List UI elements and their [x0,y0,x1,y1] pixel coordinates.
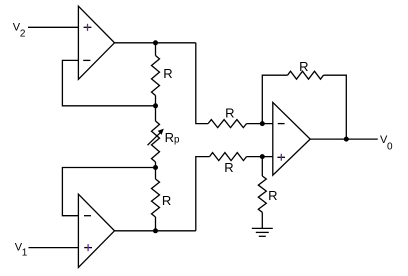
svg-text:1: 1 [22,247,28,258]
wire U3 feedback up from inverting node [262,75,287,123]
svg-text:2: 2 [20,29,26,40]
ground symbol [252,228,273,236]
op-amp U1 (top) [78,6,114,79]
svg-text:R: R [225,106,234,121]
U3 - input marker [278,123,285,125]
wire stub: U1 output down to U3 inverting row [196,43,208,124]
junction node U1 output [153,40,158,45]
resistor R (bottom, between node row 3 and U2 output node) [152,168,160,231]
potentiometer RP between node rows 2 and 3 [148,106,164,168]
wire U2 output to stub corner [115,230,196,232]
U3 + input marker [277,154,285,161]
op-amp U3 (right) [273,102,310,175]
wire U1 output to stub corner [115,42,196,44]
op-amp U2 (bottom) [78,194,114,267]
svg-text:R: R [224,160,233,175]
resistor R (top, between U1 output node and node row 2) [152,43,160,106]
svg-text:Rp: Rp [165,130,180,146]
svg-text:R: R [299,59,308,74]
wire resistor to U3 inverting input [247,123,273,125]
wire resistor to U3 noninverting input [247,156,273,158]
svg-text:R: R [162,193,171,208]
wire V2 to U1 noninverting input [28,26,78,28]
wire V1 to U2 noninverting input [29,247,79,249]
U2 + input marker [84,244,92,251]
wire feedback resistor to output column [324,75,347,139]
wire U2 feedback: inverting input to node row 3 [62,168,155,216]
junction node U3 output [344,137,349,142]
junction node row 2 [153,103,158,108]
resistor R (to U3 inverting input) [208,120,246,128]
resistor R (to U3 noninverting input) [210,153,247,161]
junction node row 3 [153,165,158,170]
resistor R (U3 feedback) [288,71,324,79]
resistor R (grounded, at U3 noninverting input) [258,157,266,229]
wire U1 feedback: inverting input to node row 2 [62,60,155,105]
wire U3 output [310,138,378,140]
junction node U3 inverting input [260,121,265,126]
svg-text:R: R [268,188,277,203]
U1 + input marker [84,24,92,31]
junction node U3 noninverting input [260,154,265,159]
svg-text:0: 0 [387,142,393,153]
svg-text:R: R [163,66,172,81]
wire stub: U2 output up to U3 noninverting row [196,157,210,231]
U1 - input marker [83,59,90,61]
RP wiper arrow [148,131,163,145]
junction node U2 output [153,228,158,233]
U2 - input marker [84,215,91,217]
